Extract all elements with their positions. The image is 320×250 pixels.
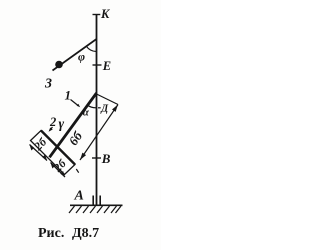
svg-text:E: E: [102, 59, 111, 73]
bearing lines at A: [92, 196, 94, 205]
tick B: [92, 157, 101, 159]
axis KA (vertical shaft): [96, 15, 98, 205]
witness line from pivot to apex: [97, 94, 119, 105]
dimension arrow 6b (double headed, apex to plate corner): [80, 105, 118, 161]
svg-text:2: 2: [49, 115, 56, 129]
angle phi arc: [86, 46, 96, 51]
svg-text:Д: Д: [100, 104, 109, 115]
plate top edge thicker: [41, 131, 75, 165]
upper 2b dimension arrow inside plate: [30, 145, 48, 161]
tick E: [93, 64, 102, 66]
label D (Cyrillic De) with dash: [98, 107, 101, 109]
ground line: [70, 204, 123, 206]
small tick past lower plate corner: [76, 169, 78, 173]
svg-text:α: α: [83, 107, 90, 119]
svg-text:A: A: [74, 189, 84, 204]
svg-text:φ: φ: [78, 50, 85, 64]
svg-text:γ: γ: [59, 116, 65, 131]
angle alpha arc: [87, 105, 96, 108]
svg-text:B: B: [101, 151, 111, 166]
plate 2 (rotated rectangle): [31, 131, 76, 175]
ball 3: [55, 61, 63, 69]
rod 1 (thick, from pivot through plate): [50, 93, 97, 157]
top tick at K: [93, 14, 101, 16]
pendulum thread: [53, 39, 97, 71]
svg-text:3: 3: [44, 77, 52, 92]
svg-text:Д8.7: Д8.7: [72, 226, 99, 241]
svg-text:Рис.: Рис.: [38, 226, 64, 241]
svg-text:1: 1: [65, 88, 72, 103]
lower 2b dimension arrow inside plate: [51, 163, 66, 178]
ground hatching: [69, 206, 121, 213]
